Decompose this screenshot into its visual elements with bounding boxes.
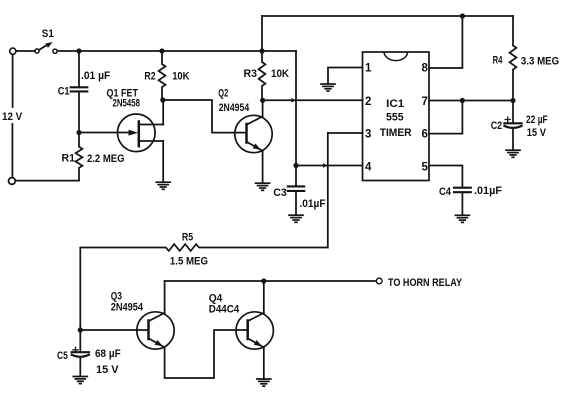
ground Q4 xyxy=(257,379,271,386)
node pin7 / pin6 riser xyxy=(460,98,465,103)
svg-text:.01µF: .01µF xyxy=(474,185,502,197)
svg-text:C3: C3 xyxy=(273,187,287,199)
horn relay terminal xyxy=(376,278,382,284)
wire horn relay line xyxy=(165,280,377,282)
svg-text:R3: R3 xyxy=(244,68,258,80)
wire C2 top lead xyxy=(512,101,514,123)
svg-text:12 V: 12 V xyxy=(2,111,23,123)
svg-text:2N4954: 2N4954 xyxy=(219,102,250,114)
label + C5 xyxy=(73,347,78,352)
wire gate node to Q1 xyxy=(79,132,130,134)
node C1 top xyxy=(76,48,81,53)
wire Q4 emitter down xyxy=(263,347,265,379)
resistor R2 xyxy=(159,51,166,100)
svg-text:TO HORN RELAY: TO HORN RELAY xyxy=(388,277,463,289)
node R3 bottom / pin2 xyxy=(260,98,265,103)
svg-text:7: 7 xyxy=(422,96,428,108)
transistor Q3 2N4954 xyxy=(137,312,174,349)
wire pin 8 xyxy=(429,16,462,68)
svg-text:R1: R1 xyxy=(62,153,76,165)
node R4 bottom / C2 xyxy=(510,98,515,103)
ground C2 xyxy=(506,150,520,157)
resistor R3 xyxy=(259,51,266,100)
svg-text:5: 5 xyxy=(422,161,429,173)
svg-text:Q3: Q3 xyxy=(111,290,122,302)
svg-text:555: 555 xyxy=(386,112,404,124)
svg-text:15 V: 15 V xyxy=(527,127,547,139)
wire pin 1 xyxy=(328,68,363,84)
transistor Q1 FET 2N5458 xyxy=(118,114,164,152)
wire C2 bottom lead xyxy=(512,129,514,150)
wire 12V source vertical xyxy=(11,55,13,178)
node Q1 gate xyxy=(76,130,81,135)
resistor R1 xyxy=(76,133,83,181)
node R2 top xyxy=(159,48,164,53)
wire C5 top lead xyxy=(79,330,81,352)
svg-text:R2: R2 xyxy=(144,71,155,83)
crossing blob pin4 xyxy=(323,163,328,168)
crossing blob pin2 xyxy=(291,98,296,103)
capacitor C2 electrolytic xyxy=(504,123,521,128)
wire pin 5 xyxy=(429,166,462,188)
ground C5 xyxy=(73,377,87,384)
capacitor C4 xyxy=(454,188,471,193)
wire C1 bottom lead xyxy=(78,92,80,133)
wire C3 top lead xyxy=(295,166,297,187)
capacitor C5 electrolytic xyxy=(72,352,89,357)
wire Q1 source down xyxy=(162,141,164,182)
wire Q3 base xyxy=(80,329,148,331)
ground pin 1 xyxy=(321,84,335,91)
svg-text:3.3 MEG: 3.3 MEG xyxy=(521,55,559,67)
ground C3 xyxy=(289,215,303,222)
wire Q2 emitter down xyxy=(262,151,264,183)
ground C4 xyxy=(455,215,469,222)
wire C3 bottom lead xyxy=(295,191,297,215)
label + C2 xyxy=(505,117,510,122)
resistor R4 xyxy=(510,16,517,101)
node pin8 drop xyxy=(460,13,465,18)
wire Q2 collector up xyxy=(262,100,264,116)
wire R2 bottom to Q2 base xyxy=(163,100,247,133)
wire pin 4 xyxy=(296,165,363,167)
svg-text:1.5 MEG: 1.5 MEG xyxy=(170,256,208,268)
wire Q3 collector up xyxy=(164,281,166,313)
svg-text:6: 6 xyxy=(422,129,428,141)
capacitor C1 xyxy=(71,87,88,91)
svg-text:1: 1 xyxy=(365,63,372,75)
12V source terminal top xyxy=(10,48,16,54)
capacitor C3 xyxy=(288,186,304,191)
svg-text:.01µF: .01µF xyxy=(300,198,326,210)
svg-text:.01 µF: .01 µF xyxy=(81,70,111,82)
op-amp IC1 555 TIMER box xyxy=(363,52,430,181)
wire C5 bottom lead xyxy=(79,358,81,377)
node Q4 collector xyxy=(261,278,266,283)
svg-text:68 µF: 68 µF xyxy=(95,348,121,360)
wire Q1 drain up xyxy=(162,100,164,125)
wire Q3 emitter to Q4 base xyxy=(165,330,248,378)
switch S1 xyxy=(16,42,57,53)
svg-text:2.2 MEG: 2.2 MEG xyxy=(87,153,125,165)
wire +12V drop to C3/pin4 node xyxy=(295,51,297,166)
transistor Q2 2N4954 xyxy=(235,115,272,152)
node R3 top xyxy=(259,48,264,53)
svg-text:R4: R4 xyxy=(493,54,503,66)
resistor R5 xyxy=(80,244,327,330)
svg-text:2N5458: 2N5458 xyxy=(113,97,141,109)
svg-text:IC1: IC1 xyxy=(386,98,404,110)
svg-text:8: 8 xyxy=(422,63,429,75)
svg-text:C1: C1 xyxy=(58,86,70,98)
svg-text:2: 2 xyxy=(365,96,371,108)
wire R1 bottom to source xyxy=(16,180,79,182)
wire pin 2 xyxy=(263,99,363,101)
wire C4 bottom lead xyxy=(461,193,463,215)
svg-text:C5: C5 xyxy=(57,350,68,362)
wire C1 top lead xyxy=(78,51,80,87)
svg-text:10K: 10K xyxy=(271,68,289,80)
wire pin 3 xyxy=(328,133,363,248)
svg-text:4: 4 xyxy=(365,161,372,173)
ground Q2 emitter xyxy=(256,183,270,190)
svg-text:C4: C4 xyxy=(439,186,452,198)
svg-text:15 V: 15 V xyxy=(96,364,119,376)
svg-text:C2: C2 xyxy=(491,120,503,132)
svg-text:S1: S1 xyxy=(42,28,54,40)
wire pin 7 xyxy=(429,100,513,102)
svg-text:2N4954: 2N4954 xyxy=(111,302,144,314)
wire pin 6 xyxy=(429,101,462,134)
wire top rail xyxy=(262,15,513,17)
svg-text:3: 3 xyxy=(365,129,371,141)
svg-text:22 µF: 22 µF xyxy=(526,114,548,126)
wire Q4 collector up xyxy=(263,281,265,313)
12V source terminal bottom xyxy=(9,178,16,185)
node R2 bottom / Q1 drain xyxy=(160,97,165,102)
svg-text:Q2: Q2 xyxy=(218,88,228,100)
svg-text:TIMER: TIMER xyxy=(380,127,412,139)
transistor Q4 D44C4 xyxy=(236,312,273,349)
node Q3 base / C5 xyxy=(78,327,83,332)
svg-text:R5: R5 xyxy=(182,232,193,244)
wire +12V rail xyxy=(57,50,296,52)
ground Q1 source xyxy=(156,182,170,189)
svg-text:D44C4: D44C4 xyxy=(209,304,240,316)
wire V+ riser xyxy=(261,16,263,51)
node C3 top xyxy=(293,163,298,168)
svg-text:10K: 10K xyxy=(172,71,189,83)
